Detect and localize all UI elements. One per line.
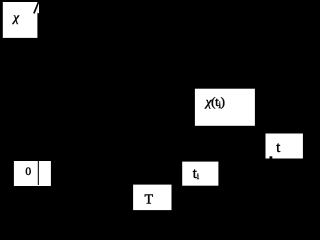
label box chi (y-axis label) (3, 2, 39, 38)
label box chi(t_i) (195, 89, 255, 126)
label box 0 (origin) (14, 161, 51, 186)
svg-text:t: t (276, 140, 280, 156)
y-axis line segment through 0 box (38, 161, 39, 185)
t-axis arrowhead notch in t box (270, 156, 273, 158)
svg-text:0: 0 (25, 166, 31, 178)
svg-text:χ: χ (11, 10, 19, 25)
y-axis arrowhead left barb (black slash over white corner) (34, 1, 39, 13)
label box t (t-axis label) (266, 134, 303, 159)
svg-text:χ(ti): χ(ti) (204, 94, 225, 110)
svg-text:T: T (145, 192, 154, 207)
label box T (period) (133, 185, 171, 211)
label box t_i (182, 162, 218, 186)
